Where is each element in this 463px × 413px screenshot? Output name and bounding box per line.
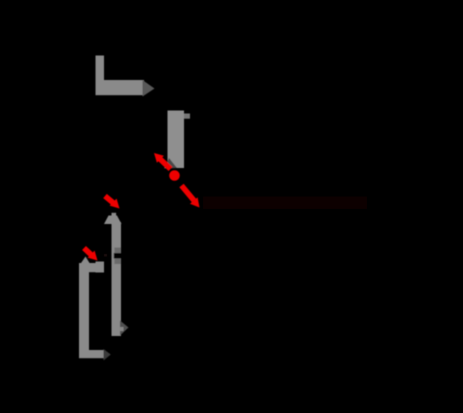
gray L-arrow A (down then right) [96, 56, 155, 97]
red arrow c1 (up-left) [154, 153, 171, 169]
gray double-headed vertical arrow F [104, 213, 129, 336]
red dot [169, 170, 180, 181]
red arrow e2 (down-right, small) [105, 196, 120, 209]
faint dark red band (faded arrow continuation) [203, 197, 367, 210]
gray C-shaped arrow H (down, left, down, right) [79, 257, 111, 361]
red arrow c3 (down-right) [182, 186, 200, 208]
gray bar B (vertical, dark down-left head) [164, 111, 190, 169]
red arrow g (down-right, small) [84, 248, 98, 261]
